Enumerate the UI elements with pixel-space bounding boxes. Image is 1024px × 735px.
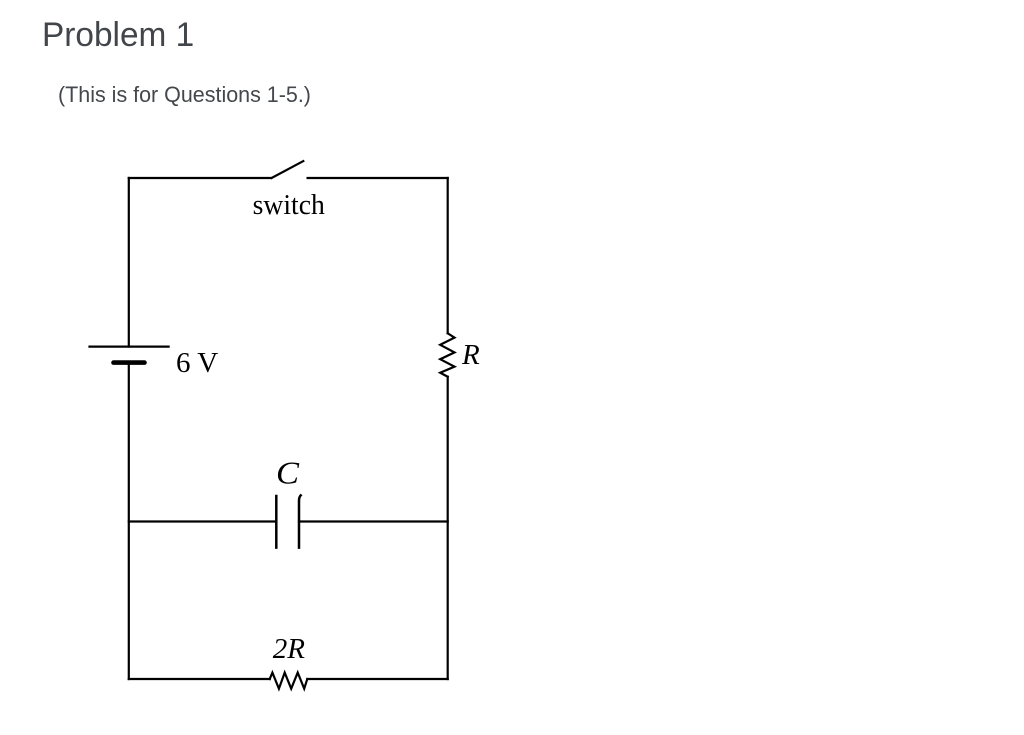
wire top-left segment (129, 177, 271, 179)
wire middle-left segment (129, 520, 276, 522)
subtitle (58, 84, 311, 106)
wire top-right segment (308, 177, 448, 179)
wire right lower (447, 377, 449, 679)
wire bottom-left segment (129, 678, 270, 680)
heading Problem 1 (42, 18, 194, 53)
svg-text:2R: 2R (273, 633, 306, 665)
battery B1 long plate (90, 346, 169, 348)
wire middle-right segment (299, 520, 448, 522)
svg-text:R: R (461, 339, 480, 371)
resistor R (440, 333, 454, 376)
capacitor C right plate (299, 495, 301, 547)
battery B1 short plate (114, 360, 145, 365)
wire left lower (128, 363, 130, 679)
svg-text:6 V: 6 V (176, 347, 218, 379)
wire bottom-right segment (307, 678, 447, 680)
capacitor C left plate (275, 496, 278, 548)
switch S (272, 161, 304, 178)
wire left upper (128, 178, 130, 347)
svg-text:C: C (276, 455, 300, 491)
wire right upper (447, 178, 449, 333)
svg-text:switch: switch (253, 189, 326, 221)
resistor 2R (270, 673, 308, 689)
